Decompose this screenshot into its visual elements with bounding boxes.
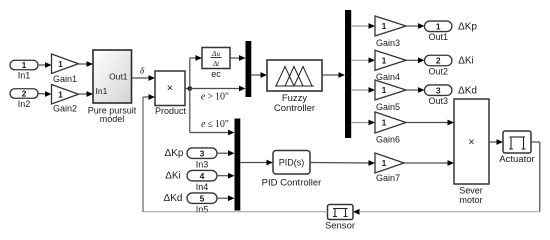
label dKd for In5 [164,193,183,204]
svg-text:1: 1 [22,60,27,70]
wire Gain6 to Sever motor [406,120,454,126]
fuzzy logic controller Fuzzy Controller [267,60,322,114]
svg-text:In1: In1 [18,71,31,81]
gain Gain1 [52,54,79,84]
wire Demux to Gain3 [351,23,375,29]
label dKi for In4 [165,171,181,182]
svg-text:1: 1 [58,89,63,99]
wire junction up to ec block [190,55,202,88]
svg-text:Out2: Out2 [428,66,448,76]
svg-text:Gain4: Gain4 [376,72,400,82]
svg-text:Gain5: Gain5 [376,102,400,112]
label dKd [458,86,477,97]
demux Demux [345,10,351,138]
svg-text:e ≤ 10″: e ≤ 10″ [201,119,229,130]
wire Fuzzy Controller to Demux [322,72,345,78]
svg-text:motor: motor [459,195,482,205]
gain Gain3 [375,16,406,48]
product block Product [155,71,187,116]
pid controller PID(s) [262,151,322,189]
wire Mux1 to Fuzzy Controller [251,72,267,78]
svg-text:1: 1 [382,158,387,168]
wire Product output to junction [185,88,190,90]
wire Actuator to Sensor feedback [353,142,540,215]
svg-text:Product: Product [155,106,187,116]
gain Gain6 [375,112,406,145]
wire e>10 junction to Mux1 with label [190,86,246,103]
svg-text:1: 1 [382,85,387,95]
saturation block Sensor [325,205,355,232]
svg-text:2: 2 [22,89,27,99]
junction node [188,86,193,91]
mux Mux2 [235,119,241,211]
wire In3 to Mux2 [217,150,235,156]
input port In2 [10,89,38,109]
svg-text:Controller: Controller [274,103,315,114]
svg-text:In4: In4 [196,182,209,192]
svg-text:e > 10″: e > 10″ [201,92,229,103]
svg-text:PID(s): PID(s) [279,158,305,168]
svg-text:ΔKp: ΔKp [458,22,477,33]
svg-text:Δu: Δu [211,49,220,58]
wire In5 to Mux2 [217,195,235,201]
product block Sever motor [454,99,489,205]
svg-text:Gain3: Gain3 [376,38,400,48]
wire Sever motor to Actuator [489,139,503,145]
wire Demux to Gain4 [351,57,375,63]
svg-text:3: 3 [200,148,205,158]
svg-text:In1: In1 [96,86,108,96]
svg-text:2: 2 [436,56,441,66]
svg-text:ΔKi: ΔKi [458,56,474,67]
svg-text:Gain2: Gain2 [53,104,77,114]
svg-text:Out1: Out1 [109,72,128,82]
svg-text:Δt: Δt [212,59,220,68]
wire Sensor to Product feedback [143,94,328,212]
gain Gain4 [375,50,406,82]
svg-text:Out1: Out1 [428,32,448,42]
svg-text:Gain1: Gain1 [53,74,77,84]
wire junction down to Mux2 with label e<=10 [190,89,235,136]
svg-text:1: 1 [436,22,441,32]
svg-text:3: 3 [436,85,441,95]
label dKp for In3 [165,148,184,159]
svg-text:PID Controller: PID Controller [262,178,322,189]
svg-text:In5: In5 [196,204,209,214]
svg-text:1: 1 [382,118,387,128]
label dKp [458,22,477,33]
wire ec to Mux1 [230,55,246,61]
wire Demux to Gain6 [351,120,375,126]
derivative block ec [202,48,230,80]
gain Gain7 [375,153,404,183]
svg-text:×: × [167,83,173,95]
output port Out2 [424,55,452,76]
svg-text:5: 5 [200,193,205,203]
svg-text:Out3: Out3 [428,96,448,106]
input port In3 [187,148,217,170]
svg-text:ΔKd: ΔKd [458,86,477,97]
wire Gain5 to Out3 [406,87,425,93]
input port In1 [10,60,38,80]
wire Gain7 to Sever motor [404,160,454,166]
svg-text:1: 1 [382,55,387,65]
wire Mux2 to PID Controller [240,160,273,166]
wire PID Controller to Gain7 [310,160,375,166]
subsystem Pure pursuit model [88,50,137,124]
svg-text:1: 1 [382,21,387,31]
output port Out3 [424,85,452,106]
wire Gain3 to Out1 [406,23,425,29]
label dKi [458,56,474,67]
svg-text:ΔKd: ΔKd [164,193,183,204]
svg-text:In2: In2 [18,99,31,109]
svg-text:δ: δ [140,67,145,77]
svg-text:model: model [100,114,125,124]
mux Mux1 [246,41,252,97]
input port In4 [187,170,217,192]
gain Gain5 [375,80,406,112]
saturation block Actuator [499,131,534,165]
svg-text:Gain6: Gain6 [376,135,400,145]
svg-text:×: × [468,137,474,149]
wire In1 to Gain1 [38,62,52,68]
svg-text:ΔKp: ΔKp [165,148,184,159]
svg-text:Actuator: Actuator [499,154,534,165]
wire Out1 to Product with label delta [132,67,156,81]
svg-text:In3: In3 [196,159,209,169]
wire Gain1 to Pure pursuit model [79,61,94,67]
svg-text:Sensor: Sensor [325,221,355,232]
svg-text:Sever: Sever [459,186,483,196]
wire Gain2 to Pure pursuit model [79,91,94,97]
wire Demux to Gain5 [351,87,375,93]
wire In4 to Mux2 [217,173,235,179]
svg-text:Gain7: Gain7 [376,173,400,183]
wire Gain4 to Out2 [406,57,425,63]
svg-text:ec: ec [211,69,221,79]
svg-text:1: 1 [58,59,63,69]
output port Out1 [424,21,452,42]
input port In5 [187,193,217,215]
svg-text:ΔKi: ΔKi [165,171,181,182]
svg-text:4: 4 [200,171,205,181]
gain Gain2 [52,85,79,114]
wire In2 to Gain2 [38,91,52,97]
